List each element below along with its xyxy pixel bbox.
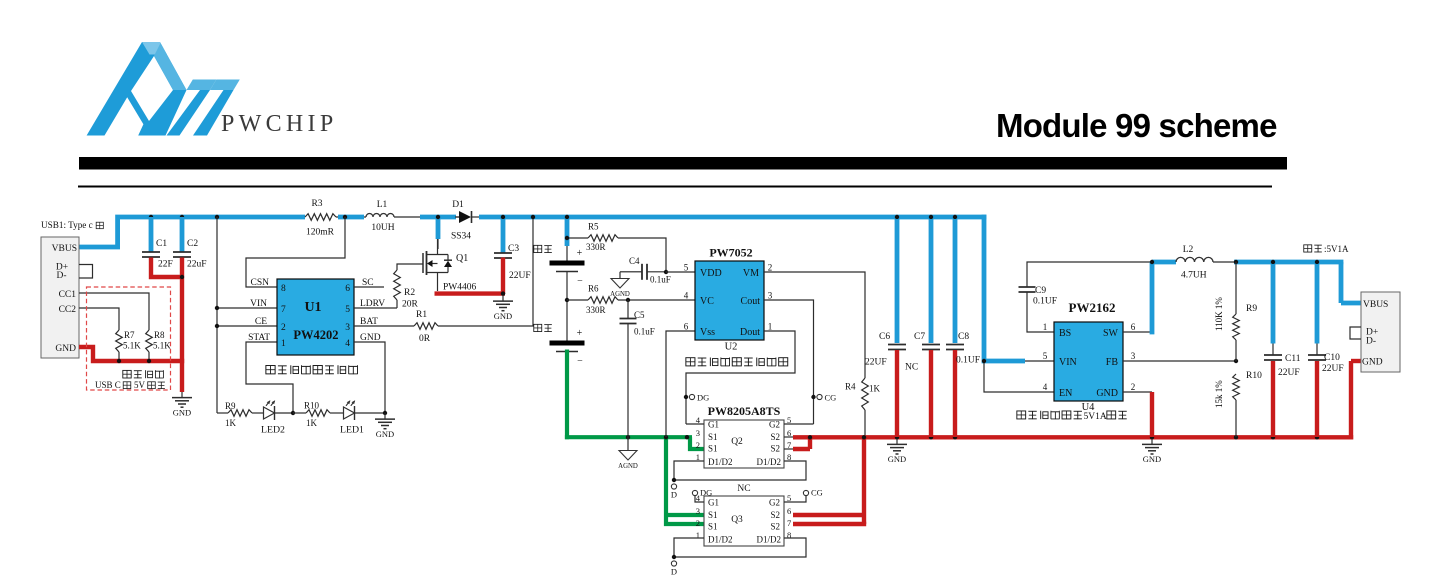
resistor R2 — [354, 264, 423, 310]
svg-text:Q1: Q1 — [456, 253, 468, 264]
svg-text:L2: L2 — [1183, 245, 1194, 255]
wire U4 GND red — [1123, 392, 1152, 437]
svg-text:LED2: LED2 — [261, 425, 285, 436]
svg-text:AGND: AGND — [618, 463, 638, 470]
svg-text:5: 5 — [345, 305, 350, 315]
ground rail mid — [887, 439, 907, 464]
svg-text:VBUS: VBUS — [52, 244, 77, 254]
svg-text:330R: 330R — [586, 242, 606, 252]
svg-text:CSN: CSN — [251, 278, 270, 288]
label battery1 cjk — [534, 245, 552, 252]
wire CC1 net — [79, 293, 149, 330]
svg-text:2: 2 — [1131, 382, 1136, 392]
battery BT2 — [550, 300, 585, 367]
svg-text:2: 2 — [768, 263, 773, 273]
svg-text:AGND: AGND — [610, 291, 630, 298]
junction output dots — [1234, 260, 1319, 264]
svg-text:S2: S2 — [770, 432, 780, 442]
wire CSN sense net — [246, 217, 345, 287]
svg-text:3: 3 — [768, 291, 773, 301]
svg-text:6: 6 — [684, 322, 689, 332]
junction VC dot — [626, 298, 630, 302]
wire Q2 pin stubs — [674, 424, 814, 480]
svg-text:5V1A: 5V1A — [1084, 412, 1107, 422]
svg-text:7: 7 — [281, 305, 286, 315]
svg-text:C8: C8 — [958, 332, 969, 342]
resistor R10 1K — [293, 401, 343, 429]
wire U1 gnd net — [354, 342, 385, 413]
svg-text:FB: FB — [1106, 357, 1119, 368]
svg-text:R9: R9 — [225, 401, 236, 411]
capacitor C1 — [142, 217, 173, 270]
svg-text:Q2: Q2 — [731, 437, 743, 447]
svg-text:1: 1 — [1043, 322, 1048, 332]
svg-text:VBUS: VBUS — [1363, 300, 1388, 310]
svg-text:S1: S1 — [708, 510, 718, 520]
svg-text:CG: CG — [825, 393, 837, 403]
svg-text:R8: R8 — [154, 330, 165, 340]
node CG Q3 — [803, 488, 822, 498]
capacitor C7 NC — [905, 219, 940, 437]
label charger circuit cjk — [266, 365, 358, 374]
svg-text:1K: 1K — [869, 384, 881, 394]
svg-text:6: 6 — [1131, 322, 1136, 332]
svg-text:0R: 0R — [419, 334, 431, 344]
svg-text:R3: R3 — [311, 199, 322, 209]
analog ground AGND C4 — [610, 272, 630, 298]
svg-text:G2: G2 — [769, 498, 780, 508]
svg-text:VIN: VIN — [250, 299, 267, 309]
transistor Q2 box — [704, 420, 784, 469]
node CG Q2 — [811, 393, 836, 403]
svg-text:R4: R4 — [845, 382, 856, 392]
ground LED — [375, 414, 395, 439]
svg-text:VM: VM — [743, 268, 759, 279]
resistor R8 — [146, 330, 172, 352]
svg-text:S2: S2 — [770, 522, 780, 532]
svg-text:4.7UH: 4.7UH — [1181, 271, 1207, 281]
svg-text:SW: SW — [1103, 328, 1119, 339]
svg-text:D1/D2: D1/D2 — [757, 457, 782, 467]
junction bus dots — [149, 215, 957, 219]
ic U4 PW2162 — [1043, 300, 1136, 413]
capacitor C6 — [865, 219, 906, 437]
svg-text:−: − — [577, 276, 583, 287]
node D Q3 — [671, 555, 677, 577]
junction green dots — [626, 435, 689, 439]
label PW8205A8TS — [708, 404, 781, 418]
inductor L1 — [366, 200, 395, 233]
svg-text:22UF: 22UF — [865, 358, 887, 368]
junction usb red dots — [117, 275, 184, 363]
svg-text:R6: R6 — [588, 284, 599, 294]
svg-text:1K: 1K — [225, 418, 237, 428]
svg-text:22UF: 22UF — [1322, 364, 1344, 374]
svg-text:GND: GND — [376, 429, 394, 439]
svg-text:0.1uF: 0.1uF — [634, 327, 655, 337]
label U1 pin names — [248, 278, 385, 343]
svg-text:VC: VC — [700, 296, 714, 307]
svg-text:NC: NC — [737, 484, 750, 494]
junction red q1 dot — [501, 291, 505, 295]
wire VIN CE vertical — [217, 217, 277, 413]
svg-text:5.1K: 5.1K — [153, 341, 171, 351]
label NC Q3 — [737, 484, 750, 494]
svg-text:C2: C2 — [187, 239, 198, 249]
svg-text:6: 6 — [345, 284, 350, 294]
svg-text::5V1A: :5V1A — [1324, 244, 1349, 254]
svg-text:DG: DG — [700, 488, 712, 498]
resistor R10 15k — [1214, 371, 1262, 437]
dashed comm-resistor box — [87, 287, 171, 390]
svg-text:C10: C10 — [1324, 353, 1340, 363]
svg-text:L1: L1 — [377, 200, 388, 210]
svg-text:D1/D2: D1/D2 — [708, 535, 733, 545]
capacitor C8 — [946, 219, 980, 437]
ic U1 PW4202 — [277, 279, 354, 355]
svg-text:CG: CG — [811, 488, 823, 498]
resistor R1 — [354, 219, 533, 344]
svg-text:Cout: Cout — [741, 296, 761, 307]
resistor R9 110K — [1214, 262, 1257, 361]
svg-text:NC: NC — [905, 363, 918, 373]
resistor R6 330R — [567, 284, 695, 316]
ground USB — [172, 392, 192, 417]
svg-text:330R: 330R — [586, 305, 606, 315]
svg-text:5.1K: 5.1K — [123, 341, 141, 351]
capacitor C4 — [626, 256, 671, 285]
diode D1 SS34 — [451, 200, 472, 242]
analog ground AGND C5 — [618, 439, 638, 470]
svg-text:120mR: 120mR — [306, 228, 335, 238]
svg-text:GND: GND — [1143, 454, 1161, 464]
svg-text:PW2162: PW2162 — [1069, 300, 1116, 315]
svg-text:15k 1%: 15k 1% — [1214, 380, 1224, 408]
svg-text:GND: GND — [1096, 388, 1118, 399]
wire SC stub — [354, 286, 384, 288]
resistor R3 — [305, 199, 336, 238]
svg-text:22UF: 22UF — [509, 271, 531, 281]
svg-text:D1/D2: D1/D2 — [757, 535, 782, 545]
wire FB net — [1123, 360, 1236, 362]
svg-text:PW4202: PW4202 — [293, 328, 338, 342]
svg-text:PWCHIP: PWCHIP — [221, 111, 337, 137]
label tongxun dianzu — [123, 370, 164, 378]
svg-text:GND: GND — [173, 407, 191, 417]
resistor R7 — [116, 330, 142, 352]
svg-text:Module 99 scheme: Module 99 scheme — [996, 107, 1277, 144]
transistor Q3 box — [704, 496, 784, 546]
svg-text:4: 4 — [345, 339, 350, 349]
svg-text:1K: 1K — [306, 418, 318, 428]
svg-text:22F: 22F — [158, 260, 173, 270]
svg-text:6: 6 — [787, 506, 791, 516]
svg-text:+: + — [577, 248, 583, 259]
svg-text:SS34: SS34 — [451, 232, 471, 242]
svg-text:D: D — [671, 490, 677, 500]
output connector — [1350, 292, 1400, 372]
junction rail dots — [808, 435, 1319, 439]
wire VM to R4 — [764, 272, 865, 378]
svg-text:3: 3 — [345, 323, 350, 333]
label Q3 pin numbers — [696, 493, 792, 540]
svg-text:4: 4 — [1043, 382, 1048, 392]
svg-text:GND: GND — [55, 344, 76, 354]
svg-text:1: 1 — [768, 322, 773, 332]
diode LED2 — [261, 400, 293, 435]
svg-text:−: − — [577, 356, 583, 367]
svg-text:USB C: USB C — [95, 380, 121, 390]
svg-text:5V: 5V — [134, 380, 146, 390]
svg-text:G1: G1 — [708, 498, 719, 508]
wire green battery minus — [565, 350, 704, 525]
svg-text:S1: S1 — [708, 444, 718, 454]
resistor R4 1K — [845, 378, 881, 437]
svg-text:8: 8 — [281, 284, 286, 294]
svg-text:U1: U1 — [304, 300, 321, 315]
svg-text:R9: R9 — [1246, 304, 1257, 314]
capacitor C5 — [620, 300, 655, 439]
svg-text:20R: 20R — [402, 300, 419, 310]
svg-text:D1/D2: D1/D2 — [708, 457, 733, 467]
header rule thin — [78, 186, 1272, 188]
svg-text:Q3: Q3 — [731, 515, 743, 525]
wire red Q3 branch — [793, 437, 866, 524]
USB1 connector — [41, 220, 93, 358]
junction led1 dot — [383, 411, 387, 415]
svg-text:4: 4 — [684, 291, 689, 301]
label output 5V1A — [1304, 244, 1349, 254]
svg-text:D: D — [671, 567, 677, 577]
wire Dout to DG — [686, 331, 795, 424]
wire top bus thin leads — [336, 217, 484, 249]
inductor L2 — [1176, 245, 1236, 281]
resistor R9 1K — [217, 401, 263, 428]
capacitor C10 — [1308, 264, 1344, 437]
svg-text:VIN: VIN — [1059, 357, 1077, 368]
svg-text:10UH: 10UH — [371, 223, 394, 233]
header bar thick — [79, 157, 1287, 170]
svg-text:22UF: 22UF — [1278, 368, 1300, 378]
svg-text:S1: S1 — [708, 522, 718, 532]
ground rail U4 — [1142, 439, 1162, 464]
wire red Q1 source to C3 gnd — [435, 258, 506, 295]
svg-text:3: 3 — [696, 506, 700, 516]
svg-text:110K 1%: 110K 1% — [1214, 297, 1224, 331]
svg-text:STAT: STAT — [248, 333, 270, 343]
svg-text:R7: R7 — [124, 330, 135, 340]
wire Q3 pin stubs — [674, 496, 806, 557]
svg-text:2: 2 — [696, 440, 700, 450]
wire SW stub — [1123, 331, 1152, 333]
svg-text:R2: R2 — [404, 288, 415, 298]
svg-text:GND: GND — [494, 311, 512, 321]
svg-text:G2: G2 — [769, 420, 780, 430]
svg-text:C4: C4 — [629, 256, 640, 266]
svg-text:GND: GND — [1362, 358, 1383, 368]
junction U1 left dots — [215, 306, 219, 328]
svg-text:CC1: CC1 — [59, 290, 77, 300]
junction led2 dot — [291, 411, 295, 415]
svg-text:GND: GND — [888, 454, 906, 464]
junction FB dot — [1234, 359, 1238, 363]
capacitor C2 — [173, 217, 207, 270]
capacitor C9 and BS net — [1019, 262, 1153, 332]
svg-text:C11: C11 — [1285, 354, 1301, 364]
svg-text:D-: D- — [1366, 337, 1376, 347]
svg-text:S2: S2 — [770, 510, 780, 520]
wire R7 R8 bottoms — [119, 352, 149, 361]
svg-text:EN: EN — [1059, 388, 1072, 399]
svg-text:S2: S2 — [770, 444, 780, 454]
svg-text:USB1: Type c: USB1: Type c — [41, 220, 93, 230]
wire VBUS blue bus — [79, 215, 1025, 361]
svg-text:C6: C6 — [879, 332, 890, 342]
wire VIN EN thin — [984, 361, 1054, 392]
svg-text:7: 7 — [787, 518, 791, 528]
wire SW blue — [1152, 262, 1176, 334]
wire Vss net — [666, 331, 695, 437]
PWCHIP logo — [87, 42, 338, 137]
wire red C1 C2 to gnd rail — [79, 258, 184, 393]
svg-text:U2: U2 — [725, 342, 738, 353]
svg-text:3: 3 — [1131, 351, 1136, 361]
label USB C kou 5V dakai — [95, 380, 165, 390]
junction VIN dot — [982, 359, 986, 363]
svg-text:Vss: Vss — [700, 327, 715, 338]
svg-text:Dout: Dout — [740, 327, 760, 338]
svg-text:VDD: VDD — [700, 268, 722, 279]
svg-text:PW4406: PW4406 — [443, 283, 477, 293]
wire STAT net — [246, 342, 293, 413]
svg-text:+: + — [577, 328, 583, 339]
label protection circuit cjk — [686, 357, 788, 366]
svg-text:5: 5 — [1043, 351, 1048, 361]
svg-text:C5: C5 — [634, 310, 645, 320]
node D Q2 — [671, 478, 677, 500]
wire red Q2 S2 rail — [793, 361, 1361, 449]
title Module 99 scheme — [996, 107, 1277, 144]
label buck circuit cjk — [1017, 411, 1127, 422]
svg-text:2: 2 — [281, 323, 286, 333]
svg-text:R5: R5 — [588, 222, 599, 232]
svg-text:BS: BS — [1059, 328, 1071, 339]
svg-text:CC2: CC2 — [59, 305, 77, 315]
capacitor C3 — [494, 219, 531, 281]
label Q2 pin numbers — [696, 415, 792, 462]
svg-text:0.1UF: 0.1UF — [956, 356, 980, 366]
svg-text:D1: D1 — [452, 200, 464, 210]
ground C3 — [493, 296, 513, 321]
resistor R5 330R — [567, 222, 666, 273]
capacitor C11 — [1264, 264, 1301, 437]
svg-text:PW7052: PW7052 — [709, 246, 752, 260]
battery BT1 — [550, 219, 585, 300]
svg-text:PW8205A8TS: PW8205A8TS — [708, 404, 781, 418]
svg-text:R10: R10 — [1246, 371, 1262, 381]
svg-text:C3: C3 — [508, 244, 519, 254]
node DG Q2 — [684, 393, 709, 403]
svg-text:0.1uF: 0.1uF — [650, 275, 671, 285]
diode LED1 — [340, 400, 385, 435]
wire Cout to CG — [764, 300, 814, 424]
wire VDD stub — [666, 271, 695, 273]
svg-text:1: 1 — [281, 339, 286, 349]
svg-text:CE: CE — [255, 317, 267, 327]
svg-text:R1: R1 — [416, 310, 427, 320]
svg-text:S1: S1 — [708, 432, 718, 442]
svg-text:C9: C9 — [1035, 286, 1046, 296]
junction battery top dot — [565, 236, 569, 240]
wire CC2 net — [79, 308, 119, 330]
label USB1 kou glyph — [96, 222, 103, 228]
wire output blue — [1234, 262, 1361, 303]
svg-text:C1: C1 — [156, 239, 167, 249]
node DG Q3 — [692, 488, 712, 498]
label battery2 cjk — [534, 324, 552, 331]
transistor Q1 PW4406 — [423, 239, 477, 293]
svg-text:DG: DG — [697, 393, 709, 403]
junction VDD dot — [664, 270, 668, 274]
svg-text:22uF: 22uF — [187, 260, 207, 270]
svg-text:3: 3 — [696, 428, 700, 438]
svg-text:2: 2 — [696, 518, 700, 528]
svg-text:0.1UF: 0.1UF — [1033, 297, 1057, 307]
ic U2 PW7052 — [684, 246, 773, 353]
svg-text:C7: C7 — [914, 332, 925, 342]
svg-text:G1: G1 — [708, 420, 719, 430]
svg-text:D-: D- — [56, 271, 66, 281]
junction SW dot — [1150, 260, 1154, 264]
svg-text:R10: R10 — [304, 401, 320, 411]
svg-text:5: 5 — [684, 263, 689, 273]
junction battery mid dot — [565, 298, 569, 302]
svg-text:LED1: LED1 — [340, 425, 364, 436]
